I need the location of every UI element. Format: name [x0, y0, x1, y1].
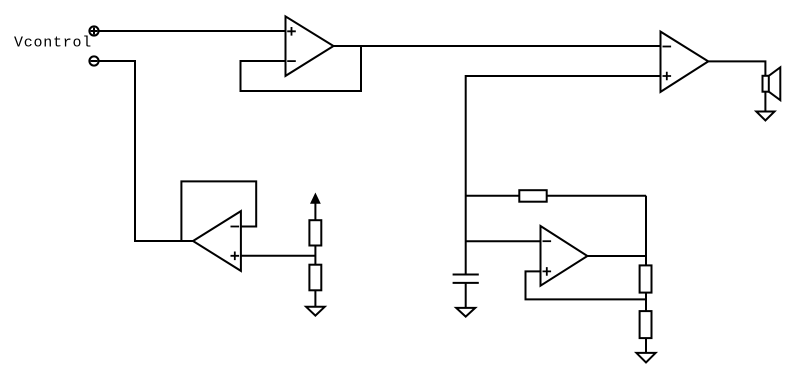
resistor R2	[309, 265, 321, 291]
capacitor C1	[453, 275, 479, 283]
op-amp U3	[193, 211, 241, 271]
wire + terminal to U1 noninverting input	[99, 30, 286, 32]
wire U1 output to U2 inverting input	[334, 45, 661, 47]
wire node A to U4 inverting input	[466, 240, 541, 242]
op-amp U2	[661, 32, 709, 92]
speaker LS1	[763, 67, 781, 100]
resistor R3	[519, 190, 546, 202]
resistor R4	[640, 265, 652, 292]
wire - terminal to U3 output	[99, 61, 193, 241]
wire node A to R3	[466, 195, 520, 197]
wire U4 noninverting input feedback loop	[526, 271, 647, 299]
supply arrow	[312, 195, 320, 220]
wire U3 noninverting input to divider node	[241, 255, 316, 257]
terminal - (Vcontrol negative)	[89, 56, 98, 65]
wire C1 to ground	[465, 283, 467, 308]
wire R5 to ground	[645, 338, 647, 353]
wire U2 output to speaker	[708, 61, 765, 75]
wire U4 output to node B	[587, 255, 646, 257]
svg-text:Vcontrol: Vcontrol	[14, 35, 92, 52]
ground	[756, 112, 774, 121]
wire speaker to ground	[764, 92, 766, 112]
wire U3 feedback output to inverting input	[181, 181, 256, 241]
op-amp U4	[541, 226, 588, 286]
ground	[306, 307, 325, 316]
wire node B vertical	[645, 196, 647, 266]
wire R3 to node B	[547, 195, 646, 197]
wire R1 to R2	[314, 246, 316, 265]
resistor R1	[309, 220, 321, 245]
wire R2 to ground	[314, 290, 316, 307]
ground	[456, 308, 475, 317]
wire U2 noninverting input to node A	[466, 76, 661, 275]
terminal + (Vcontrol positive)	[89, 26, 98, 35]
wire R4 to R5	[645, 293, 647, 312]
op-amp U1	[286, 16, 334, 76]
wire U1 feedback output to inverting input	[241, 46, 362, 91]
ground	[636, 353, 655, 363]
resistor R5	[640, 311, 652, 338]
